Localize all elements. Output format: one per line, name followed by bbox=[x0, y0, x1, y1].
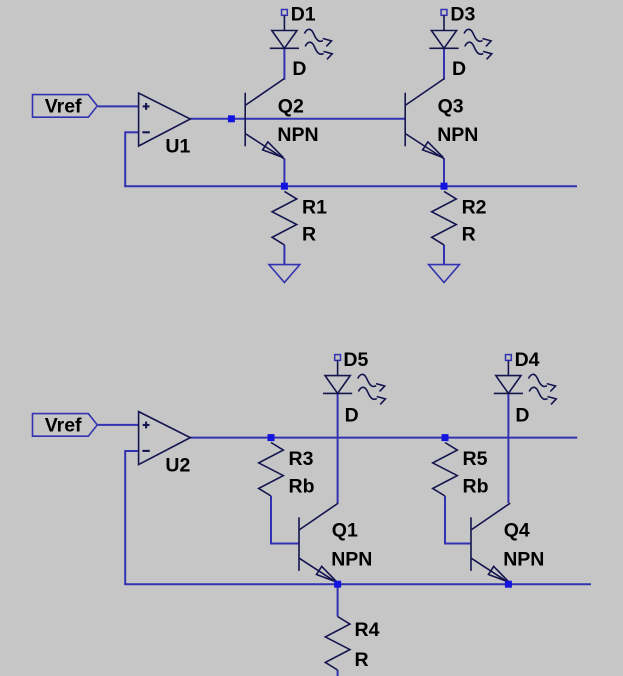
svg-text:D: D bbox=[515, 405, 529, 427]
svg-text:Rb: Rb bbox=[289, 475, 315, 497]
svg-text:Q3: Q3 bbox=[438, 96, 464, 118]
svg-text:D5: D5 bbox=[343, 349, 368, 371]
svg-text:NPN: NPN bbox=[437, 124, 478, 146]
svg-text:D: D bbox=[345, 405, 359, 427]
svg-text:D: D bbox=[292, 58, 306, 80]
svg-text:U2: U2 bbox=[165, 454, 190, 476]
svg-text:R: R bbox=[462, 224, 476, 246]
svg-text:NPN: NPN bbox=[503, 549, 544, 571]
svg-text:D1: D1 bbox=[291, 3, 316, 25]
svg-text:R1: R1 bbox=[302, 196, 327, 218]
svg-text:Q4: Q4 bbox=[504, 520, 530, 542]
svg-text:Rb: Rb bbox=[463, 475, 489, 497]
svg-text:Q2: Q2 bbox=[278, 96, 304, 118]
svg-text:R5: R5 bbox=[463, 448, 488, 470]
svg-text:U1: U1 bbox=[165, 135, 190, 157]
svg-text:Vref: Vref bbox=[45, 415, 82, 437]
svg-text:R3: R3 bbox=[289, 448, 314, 470]
svg-text:Q1: Q1 bbox=[332, 520, 358, 542]
svg-text:D: D bbox=[452, 58, 466, 80]
svg-text:Vref: Vref bbox=[45, 96, 82, 118]
svg-text:R2: R2 bbox=[462, 196, 487, 218]
svg-text:R4: R4 bbox=[355, 619, 380, 641]
svg-text:R: R bbox=[355, 649, 369, 671]
svg-text:D3: D3 bbox=[450, 3, 475, 25]
svg-text:R: R bbox=[302, 224, 316, 246]
svg-text:NPN: NPN bbox=[277, 124, 318, 146]
svg-text:NPN: NPN bbox=[331, 549, 372, 571]
svg-text:D4: D4 bbox=[515, 349, 540, 371]
